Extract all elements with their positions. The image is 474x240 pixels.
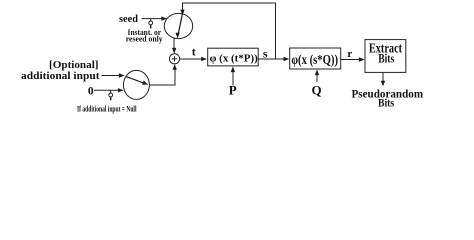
svg-text:r: r — [347, 48, 352, 60]
svg-text:If additional input = Null: If additional input = Null — [77, 104, 137, 113]
svg-text:Bits: Bits — [378, 51, 394, 65]
svg-text:seed: seed — [119, 14, 138, 25]
svg-text:0: 0 — [88, 86, 94, 98]
svg-text:t: t — [192, 44, 196, 58]
svg-text:[Optional]: [Optional] — [49, 60, 99, 71]
svg-text:φ (x (t*P)): φ (x (t*P)) — [210, 52, 259, 64]
svg-text:s: s — [263, 46, 268, 60]
svg-text:Bits: Bits — [378, 97, 395, 109]
svg-text:Q: Q — [312, 82, 322, 97]
svg-text:reseed only: reseed only — [126, 35, 163, 44]
svg-text:φ(x (s*Q)): φ(x (s*Q)) — [291, 53, 338, 68]
svg-text:additional input: additional input — [21, 71, 100, 82]
svg-text:P: P — [229, 82, 237, 97]
